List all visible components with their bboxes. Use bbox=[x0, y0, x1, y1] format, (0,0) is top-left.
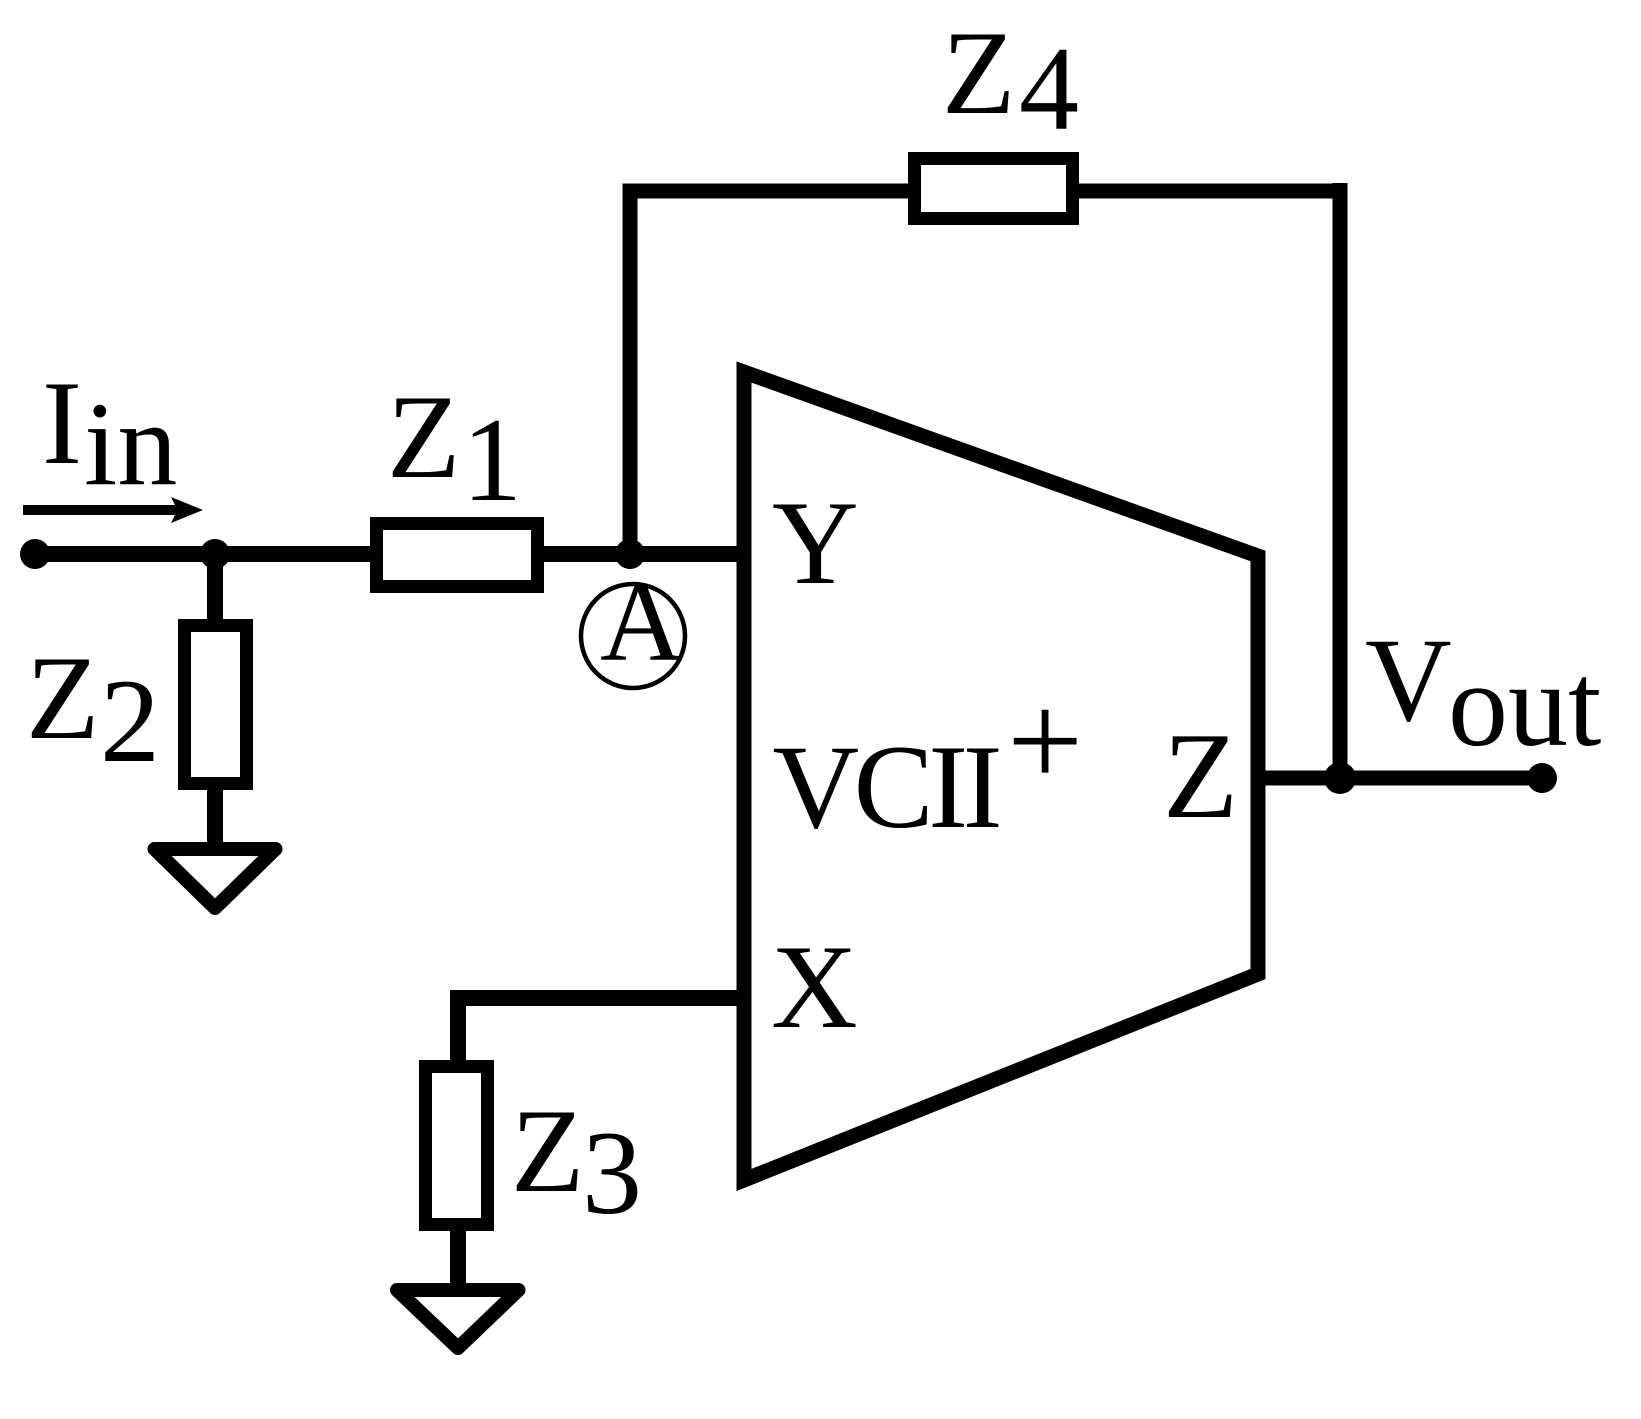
svg-text:Z: Z bbox=[942, 6, 1015, 139]
wire node A up bbox=[623, 184, 638, 563]
current arrow Iin bbox=[23, 497, 203, 523]
svg-text:Y: Y bbox=[772, 476, 859, 609]
node A dot bbox=[615, 539, 645, 569]
ground of Z3 bbox=[397, 1290, 519, 1348]
svg-text:V: V bbox=[1365, 613, 1452, 746]
node junction dot input bbox=[200, 539, 230, 569]
svg-text:1: 1 bbox=[462, 393, 522, 526]
node junction dot output bbox=[1324, 762, 1356, 794]
svg-text:2: 2 bbox=[100, 654, 160, 787]
impedance Z3 bbox=[426, 1067, 488, 1225]
label Z3 bbox=[511, 1084, 642, 1239]
block label VCII+ bbox=[773, 667, 1084, 853]
svg-text:I: I bbox=[42, 356, 82, 489]
wire Z2 bottom bbox=[207, 783, 223, 845]
label Z1 bbox=[387, 370, 522, 526]
svg-text:4: 4 bbox=[1019, 22, 1079, 155]
wire X pin horizontal bbox=[458, 990, 744, 1006]
svg-text:3: 3 bbox=[582, 1106, 642, 1239]
svg-text:Z: Z bbox=[387, 370, 460, 503]
impedance Z4 bbox=[915, 159, 1073, 219]
svg-text:VCII: VCII bbox=[773, 720, 999, 853]
ground of Z2 bbox=[155, 849, 276, 908]
label Z4 bbox=[942, 6, 1079, 155]
label Z2 bbox=[26, 631, 160, 787]
svg-text:out: out bbox=[1448, 638, 1601, 771]
label Iin bbox=[42, 356, 177, 510]
svg-text:Z: Z bbox=[1163, 707, 1238, 844]
input terminal dot bbox=[20, 539, 50, 569]
impedance Z2 bbox=[185, 626, 247, 784]
op-amp block VCII+ trapezoid bbox=[744, 372, 1258, 1180]
svg-text:+: + bbox=[1007, 667, 1083, 816]
wire feedback right vertical bbox=[1333, 183, 1348, 778]
wire feedback top bbox=[623, 184, 1348, 199]
label Vout bbox=[1365, 613, 1601, 771]
node A circle marker bbox=[581, 558, 685, 688]
wire input horizontal bbox=[35, 546, 748, 562]
output terminal dot bbox=[1527, 763, 1557, 793]
wire Z3 bottom bbox=[450, 1224, 466, 1286]
impedance Z1 bbox=[377, 524, 538, 587]
svg-text:in: in bbox=[84, 377, 177, 510]
wire output Z pin bbox=[1258, 771, 1542, 786]
wire Z2 top bbox=[207, 554, 223, 625]
svg-text:X: X bbox=[771, 920, 858, 1053]
svg-text:A: A bbox=[600, 558, 683, 685]
wire X down to Z3 bbox=[450, 990, 466, 1066]
svg-text:Z: Z bbox=[511, 1084, 584, 1217]
svg-text:Z: Z bbox=[26, 631, 99, 764]
